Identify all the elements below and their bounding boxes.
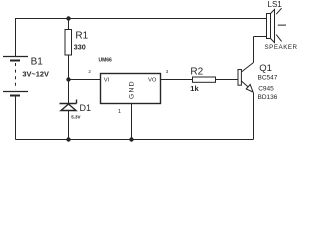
svg-text:GND: GND [128,80,135,99]
svg-text:VI: VI [104,77,110,83]
svg-text:5.3V: 5.3V [71,115,80,120]
svg-text:330: 330 [74,42,86,51]
svg-text:LS1: LS1 [268,0,283,9]
svg-text:SPEAKER: SPEAKER [265,44,298,51]
svg-text:VO: VO [148,77,157,83]
svg-text:D1: D1 [80,103,92,113]
svg-text:Q1: Q1 [259,63,272,74]
svg-text:UM66: UM66 [99,58,113,64]
svg-text:BD136: BD136 [258,94,278,101]
svg-text:BC547: BC547 [258,75,278,82]
svg-text:R1: R1 [75,31,88,42]
svg-text:R2: R2 [190,67,203,78]
svg-text:1: 1 [118,109,121,115]
svg-text:C945: C945 [258,86,274,93]
svg-text:B1: B1 [31,57,44,68]
svg-text:1k: 1k [190,84,199,93]
svg-text:3V~12V: 3V~12V [22,69,49,78]
